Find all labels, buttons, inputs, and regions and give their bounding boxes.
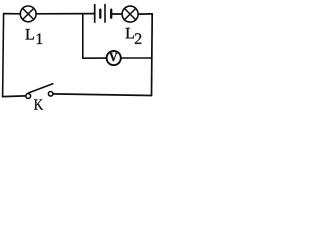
label L2 bbox=[126, 28, 142, 44]
wire: branch to voltmeter bbox=[83, 57, 107, 59]
label V (voltmeter face) bbox=[109, 53, 117, 61]
label K bbox=[34, 99, 43, 109]
wire: lamp L1 to battery (through node at branch) bbox=[36, 13, 94, 15]
wire: right side vertical bbox=[151, 14, 154, 96]
label L1 bbox=[26, 29, 43, 44]
wire: bottom right segment (switch to bottom-right corner) bbox=[53, 94, 152, 96]
wire: left side vertical bbox=[3, 14, 4, 97]
wire: bottom left segment (bottom-left corner to switch) bbox=[3, 95, 26, 98]
voltmeter V bbox=[107, 51, 121, 65]
wire: top-left corner to lamp L1 bbox=[4, 13, 21, 15]
wire: voltmeter to right side bbox=[121, 57, 152, 59]
wire: lamp L2 to top-right corner bbox=[139, 13, 153, 15]
wire: branch vertical from top wire down to voltmeter row bbox=[82, 14, 84, 59]
switch K bbox=[26, 84, 53, 99]
battery (two cells) bbox=[95, 5, 112, 23]
lamp L1 bbox=[20, 6, 36, 22]
lamp L2 bbox=[122, 6, 138, 22]
wire: battery to lamp L2 bbox=[112, 13, 122, 15]
